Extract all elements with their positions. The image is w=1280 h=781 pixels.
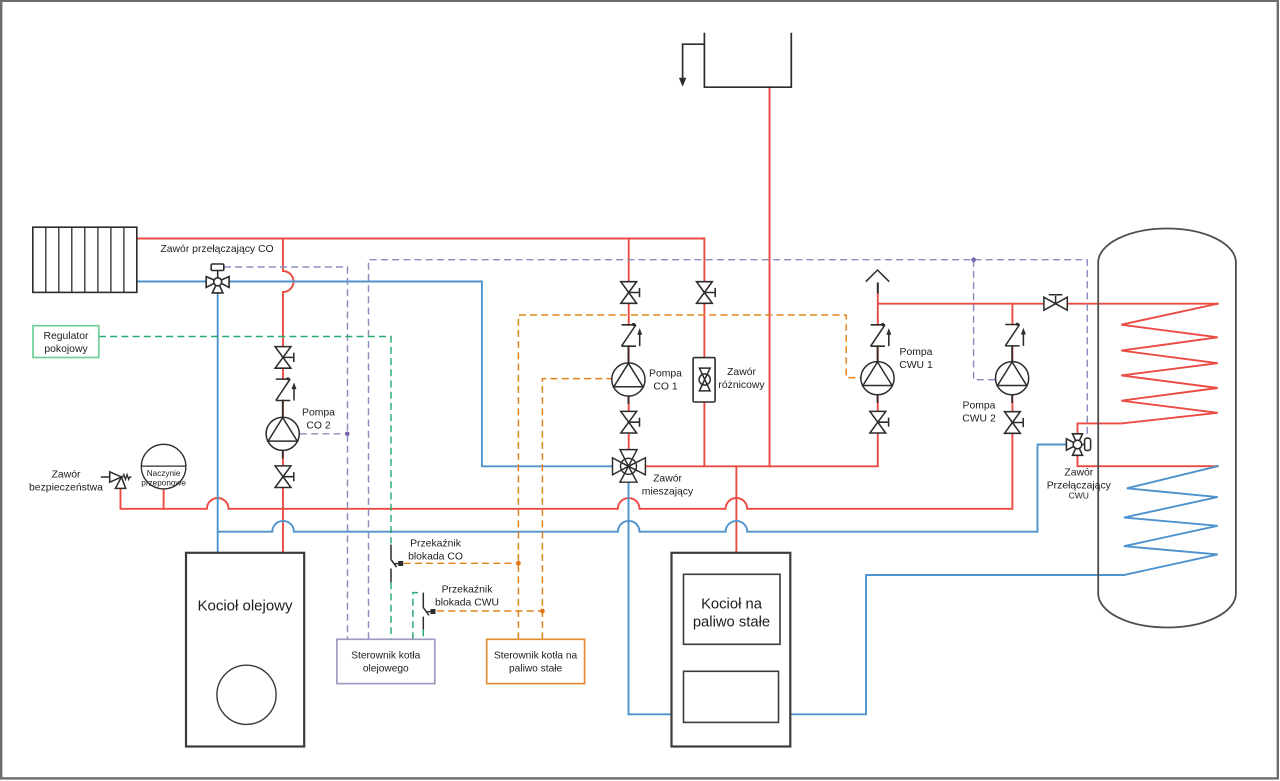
solid fuel boiler (kociol na paliwo stale): [672, 553, 791, 747]
svg-text:przeponowe: przeponowe: [141, 479, 186, 488]
wire red hot water header to tank coil entry: [878, 293, 1218, 433]
valve shutoff below pump CO2: [275, 466, 294, 488]
valve shutoff above pump CO2: [275, 347, 294, 369]
wire black stubs pump CWU2: [1011, 346, 1013, 403]
svg-text:Pompa: Pompa: [963, 401, 996, 412]
svg-text:Kocioł na: Kocioł na: [701, 597, 763, 613]
wire black stubs pump CWU1: [877, 346, 879, 403]
relay CWU contact: [423, 593, 435, 630]
pump CO2: [266, 417, 299, 450]
valve shutoff below pump CWU1: [870, 411, 889, 433]
svg-text:CO 2: CO 2: [306, 421, 330, 432]
wire red pump CWU2 riser top to hot header: [1011, 304, 1013, 325]
wire black stubs pump CO2: [282, 401, 284, 459]
svg-text:Naczynie: Naczynie: [147, 469, 181, 478]
wire red expansion vessel stub: [163, 489, 165, 509]
svg-text:Regulator: Regulator: [43, 331, 89, 342]
svg-text:CWU 1: CWU 1: [899, 360, 933, 371]
wire control green oil controller loop through relay CWU: [413, 593, 423, 640]
mixing valve (zawor mieszajacy): [613, 450, 646, 483]
wire blue solid fuel boiler right to tank lower coil: [790, 575, 1124, 714]
svg-text:Zawór przełączający CO: Zawór przełączający CO: [160, 244, 273, 255]
node orange junction dot relay CO line: [516, 561, 521, 566]
wire blue 3way valve bottom down to oil boiler: [217, 293, 219, 553]
wire red supply top from radiator to differential-valve branch corner: [137, 239, 704, 467]
wire red branch down to solid fuel boiler: [735, 466, 737, 553]
valve shutoff on differential line: [697, 282, 716, 304]
svg-text:CWU 2: CWU 2: [962, 414, 996, 425]
svg-text:mieszający: mieszający: [642, 487, 694, 498]
wire red CWU switch valve lower port to tank: [1078, 457, 1218, 467]
check valve pump CWU1: [871, 323, 892, 346]
valve shutoff on hot header (bowtie horizontal): [1044, 295, 1067, 311]
svg-text:Pompa: Pompa: [649, 369, 682, 380]
valve shutoff below pump CWU2: [1005, 412, 1024, 434]
wire black stubs pump CO1: [627, 346, 629, 404]
pump CWU2: [996, 362, 1029, 395]
check valve pump CO2: [276, 377, 297, 400]
differential valve (zawor roznicowy): [693, 358, 715, 402]
svg-text:Sterownik kotła: Sterownik kotła: [351, 651, 420, 662]
svg-text:olejowego: olejowego: [363, 664, 409, 675]
storage tank: [1098, 228, 1236, 627]
valve shutoff above pump CO1: [621, 282, 640, 304]
wire control green room regulator to relay CO and controller: [99, 337, 391, 640]
svg-text:Kocioł olejowy: Kocioł olejowy: [197, 598, 293, 615]
safety valve: [101, 472, 132, 489]
wire red branch pump CO1 down to mixing valve: [628, 239, 630, 467]
svg-text:bezpieczeństwa: bezpieczeństwa: [29, 483, 103, 494]
wire red tank upper coil zigzag: [1078, 304, 1218, 434]
svg-text:CWU: CWU: [1069, 491, 1089, 501]
svg-text:pokojowy: pokojowy: [44, 344, 88, 355]
svg-text:Przekaźnik: Przekaźnik: [442, 585, 494, 596]
svg-text:paliwo stałe: paliwo stałe: [693, 615, 770, 631]
expansion vessel (naczynie przeponowe): [141, 444, 186, 489]
vent above hot header: [866, 270, 889, 282]
wire red branch pump CO2 with jump over blue return: [283, 239, 294, 553]
svg-text:Pompa: Pompa: [900, 347, 933, 358]
node purple junction dot at pump CWU2 branch: [971, 257, 976, 262]
radiator: [33, 227, 137, 292]
svg-text:CO 1: CO 1: [653, 382, 677, 393]
wire control purple branch to pump CWU2: [974, 260, 995, 380]
wire black vent stub: [877, 283, 879, 294]
wire blue tank lower coil zigzag: [1124, 466, 1218, 575]
oil boiler controller box: [337, 639, 435, 683]
wire blue radiator return to 3way valve and on to mixing valve: [137, 282, 613, 467]
svg-text:Pompa: Pompa: [302, 408, 335, 419]
check valve pump CO1: [622, 323, 643, 346]
svg-text:Zawór: Zawór: [52, 470, 81, 481]
wire control purple CO switch valve actuator to oil boiler controller: [224, 267, 348, 639]
node purple junction dot at pump CO2 line: [345, 432, 350, 437]
svg-text:paliwo stałe: paliwo stałe: [509, 664, 563, 675]
solid fuel boiler controller box: [487, 639, 585, 683]
wire control purple oil controller to CWU switch valve actuator: [369, 260, 1088, 640]
wire red chimney expansion line down: [769, 87, 771, 466]
svg-text:Przekaźnik: Przekaźnik: [410, 539, 462, 550]
wire control purple pump CO2 branch: [300, 433, 347, 435]
wire control orange relay CWU branch to pump CO1: [437, 379, 612, 640]
svg-text:Sterownik kotła na: Sterownik kotła na: [494, 651, 578, 662]
valve 3-way CO (zawor przelaczajacy CO): [206, 264, 229, 293]
svg-text:Zawór: Zawór: [727, 367, 756, 378]
svg-text:Zawór: Zawór: [1064, 468, 1093, 479]
wire control orange relay CO to solid fuel controller and pump CWU1: [404, 315, 861, 639]
svg-text:blokada CO: blokada CO: [408, 552, 463, 563]
wire blue main return line with jumps to CWU switch valve: [218, 445, 1067, 532]
room regulator box: [33, 326, 99, 358]
valve 3-way CWU switch (zawor przelaczajacy CWU): [1066, 434, 1090, 456]
open expansion vessel (chimney): [679, 33, 791, 87]
wire red main lower line with jumps, safety valve drop to pump CWU2 riser: [121, 346, 1013, 509]
svg-text:Zawór: Zawór: [653, 474, 682, 485]
pump CWU1: [861, 362, 894, 395]
valve shutoff below pump CO1: [621, 411, 640, 433]
node orange junction dot relay CWU line: [540, 609, 545, 614]
svg-text:blokada CWU: blokada CWU: [435, 598, 499, 609]
wire blue mixing valve bottom to solid fuel boiler left: [629, 482, 672, 714]
wire red mid line mixing valve to pump CWU1 riser: [645, 434, 877, 467]
svg-text:różnicowy: różnicowy: [718, 380, 765, 391]
pump CO1: [612, 363, 645, 396]
check valve pump CWU2: [1005, 323, 1026, 346]
relay CO contact: [391, 545, 403, 583]
oil boiler (kociol olejowy): [186, 553, 304, 747]
